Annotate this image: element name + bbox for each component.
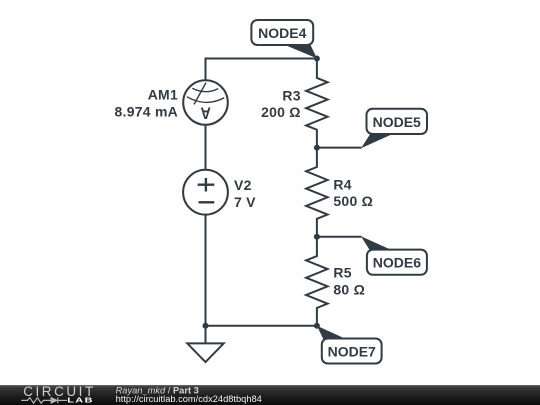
label R4 bbox=[333, 176, 351, 192]
value 80 ohm bbox=[333, 281, 365, 297]
node junction dot R3/R4 bbox=[314, 145, 320, 151]
svg-text:V2: V2 bbox=[234, 177, 252, 193]
svg-text:7 V: 7 V bbox=[234, 194, 256, 210]
wire top horizontal bbox=[206, 58, 317, 60]
svg-text:http://circuitlab.com/cdx24d8t: http://circuitlab.com/cdx24d8tbqh84 bbox=[116, 394, 262, 404]
svg-text:LAB: LAB bbox=[67, 396, 94, 404]
node NODE7 flag bbox=[317, 326, 382, 364]
logo CIRCUIT text bbox=[23, 384, 96, 399]
svg-text:AM1: AM1 bbox=[148, 87, 178, 103]
node NODE5 flag bbox=[361, 109, 427, 149]
node NODE6 flag bbox=[361, 236, 427, 275]
ground bbox=[187, 326, 223, 362]
svg-text:500 Ω: 500 Ω bbox=[333, 193, 373, 209]
footer title text bbox=[116, 386, 199, 396]
value 200 ohm bbox=[261, 104, 301, 120]
wire stub to NODE5 flag bbox=[317, 147, 362, 149]
svg-text:A: A bbox=[200, 103, 210, 121]
node NODE4 flag bbox=[251, 20, 317, 58]
logo LAB text bbox=[67, 396, 94, 404]
svg-text:NODE5: NODE5 bbox=[373, 114, 421, 130]
footer bar bbox=[0, 385, 540, 405]
voltage source V2 bbox=[183, 170, 228, 215]
svg-text:NODE4: NODE4 bbox=[258, 25, 306, 41]
resistor R4 bbox=[306, 148, 328, 237]
svg-text:R4: R4 bbox=[333, 176, 351, 192]
value 7 V bbox=[234, 194, 256, 210]
ammeter AM1 bbox=[183, 80, 228, 125]
node junction dot bottom left bbox=[203, 323, 209, 329]
label V2 bbox=[234, 177, 252, 193]
wire stub to NODE6 flag bbox=[317, 236, 362, 238]
wire left rail upper (node to ammeter) bbox=[205, 58, 207, 81]
label AM1 bbox=[148, 87, 178, 103]
svg-text:NODE7: NODE7 bbox=[328, 344, 376, 360]
svg-text:R3: R3 bbox=[282, 87, 300, 103]
svg-text:R5: R5 bbox=[333, 265, 351, 281]
label R5 bbox=[333, 265, 351, 281]
footer url text bbox=[116, 394, 262, 404]
node junction dot R4/R5 bbox=[314, 234, 320, 240]
node junction dot bottom right bbox=[314, 323, 320, 329]
logo resistor-diode glyph bbox=[21, 397, 67, 403]
svg-text:80 Ω: 80 Ω bbox=[333, 281, 365, 297]
svg-text:8.974 mA: 8.974 mA bbox=[115, 104, 178, 120]
svg-text:200 Ω: 200 Ω bbox=[261, 104, 301, 120]
node junction dot top right bbox=[314, 56, 320, 62]
wire left rail lower (V2 to bottom) bbox=[205, 215, 207, 326]
value 500 ohm bbox=[333, 193, 373, 209]
resistor R3 bbox=[306, 59, 328, 148]
resistor R5 bbox=[306, 237, 328, 326]
label R3 bbox=[282, 87, 300, 103]
wire between ammeter and V2 bbox=[205, 125, 207, 170]
value 8.974 mA bbox=[115, 104, 178, 120]
wire bottom horizontal bbox=[206, 325, 317, 327]
svg-text:NODE6: NODE6 bbox=[373, 255, 421, 271]
